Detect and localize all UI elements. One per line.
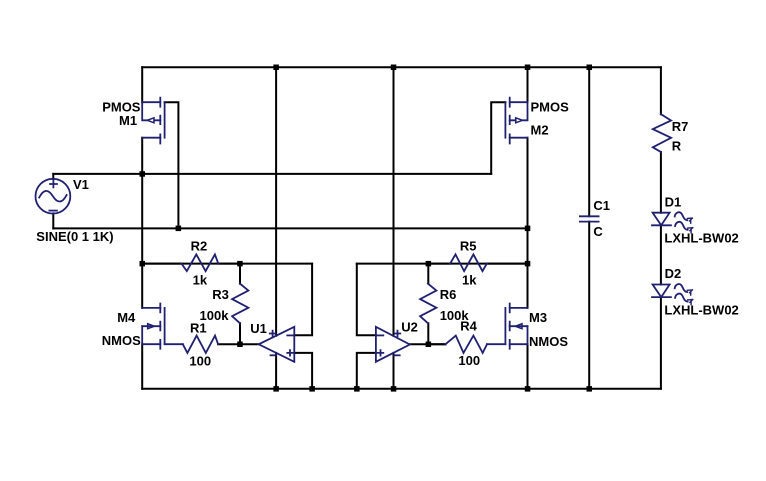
wire R1 to U1 output <box>218 343 259 345</box>
wire M2 gate riser <box>491 102 505 174</box>
wire M1 gate riser <box>165 102 179 228</box>
capacitor C1 <box>580 216 599 221</box>
svg-text:D2: D2 <box>665 266 682 281</box>
wire left R2 row <box>142 263 312 265</box>
resistor R2 <box>182 254 219 271</box>
wire R2 right lead <box>218 263 240 265</box>
wire U2 inverting input to R5 row <box>357 264 376 336</box>
wire R7 LED column <box>660 67 662 389</box>
svg-text:LXHL-BW02: LXHL-BW02 <box>664 230 738 245</box>
junction R4 left R6 bottom U2 output <box>426 342 432 348</box>
wire top rail <box>142 66 661 68</box>
wire U2 V+ riser <box>393 67 395 336</box>
diode D2 LED <box>652 284 693 305</box>
wire R4 left lead <box>428 343 445 345</box>
junction bottom rail at U2 V- <box>391 386 397 392</box>
svg-text:R4: R4 <box>460 319 477 334</box>
svg-text:100: 100 <box>458 353 480 368</box>
svg-text:R6: R6 <box>440 287 457 302</box>
wire C1 top <box>588 67 590 216</box>
svg-text:R: R <box>672 139 682 154</box>
svg-text:C1: C1 <box>593 198 610 213</box>
junction top rail at M2 source <box>525 65 531 71</box>
wire C1 bottom <box>588 222 590 389</box>
diode D1 LED <box>652 212 693 233</box>
junction top rail at C1 <box>587 65 593 71</box>
junction top rail at U1 V+ <box>273 65 279 71</box>
transistor M2 PMOS <box>505 98 527 144</box>
resistor R5 <box>450 254 487 271</box>
junction R2 left at left column <box>140 261 146 267</box>
wire R6 leads <box>427 264 429 345</box>
transistor M1 PMOS (mirrored) <box>142 98 164 144</box>
junction bottom rail at M3 source <box>525 386 531 392</box>
svg-text:R1: R1 <box>190 320 207 335</box>
wire U2 V- riser <box>393 353 395 389</box>
wire bottom rail <box>142 388 661 390</box>
op-amp U2 (output right) <box>376 327 410 362</box>
wire U1 V+ riser <box>275 67 277 336</box>
svg-text:U2: U2 <box>401 320 418 335</box>
wire M2 source to top rail <box>527 67 529 102</box>
resistor R1 <box>183 336 218 353</box>
svg-text:V1: V1 <box>73 177 89 192</box>
wire R5 right lead <box>487 263 528 265</box>
wire U1 V- riser <box>275 353 277 389</box>
wire U2 noninverting input to bottom rail <box>357 353 376 389</box>
resistor R4 <box>446 336 488 353</box>
svg-text:R5: R5 <box>460 238 477 253</box>
wire V1 top to M2 gate row <box>53 173 491 175</box>
svg-text:100: 100 <box>189 354 211 369</box>
junction R5 right at M2 drain column <box>525 261 531 267</box>
transistor M3 NMOS <box>487 304 528 349</box>
junction M2 drain at V1 bottom row <box>525 226 531 232</box>
svg-text:PMOS: PMOS <box>531 100 570 115</box>
svg-text:M3: M3 <box>529 310 547 325</box>
svg-text:NMOS: NMOS <box>102 333 141 348</box>
svg-text:SINE(0 1 1K): SINE(0 1 1K) <box>36 229 113 244</box>
wire left column M1 source <box>141 67 143 102</box>
svg-text:M2: M2 <box>531 123 549 138</box>
wire R5 left lead <box>428 263 450 265</box>
wire U1 inverting input to R2 row <box>294 264 312 336</box>
op-amp U1 (mirrored, output left) <box>259 327 295 362</box>
transistor M4 NMOS (mirrored) <box>142 304 183 349</box>
junction bottom rail at U1 V- <box>273 386 279 392</box>
svg-text:LXHL-BW02: LXHL-BW02 <box>664 302 738 317</box>
wire M2 drain to M3 drain <box>527 138 529 308</box>
junction bottom rail at U1 + input <box>309 386 315 392</box>
wire M3 source to bottom rail <box>527 344 529 389</box>
junction R1 right R3 bottom U1 output <box>237 342 243 348</box>
wire U1 noninverting input to bottom rail <box>294 353 312 389</box>
wire R3 leads <box>239 264 241 345</box>
svg-text:M4: M4 <box>117 310 136 325</box>
junction top rail at U2 V+ <box>391 65 397 71</box>
junction R2 right R3 top <box>237 261 243 267</box>
junction R5 left R6 top <box>426 261 432 267</box>
junction bottom rail at C1 <box>587 386 593 392</box>
junction bottom rail at U2 + input <box>354 386 360 392</box>
wire R2 left lead <box>142 263 181 265</box>
svg-text:M1: M1 <box>119 113 137 128</box>
wire U2 output to R4 <box>410 343 446 345</box>
wire right R5 row <box>357 263 528 265</box>
junction V1 top at left column <box>140 171 146 177</box>
wire V1 top stub <box>52 174 54 179</box>
junction M1 gate at V1 bottom row <box>176 226 182 232</box>
svg-text:1k: 1k <box>193 273 208 288</box>
svg-text:U1: U1 <box>250 321 267 336</box>
wire left column M1 drain to M4 drain <box>141 138 143 308</box>
resistor R6 <box>420 284 436 324</box>
svg-text:R3: R3 <box>212 287 229 302</box>
resistor R3 <box>232 284 248 324</box>
svg-text:NMOS: NMOS <box>529 334 568 349</box>
resistor R7 <box>653 114 671 152</box>
wire V1 bottom stub <box>52 213 54 228</box>
wire V1 bottom row <box>53 227 527 229</box>
svg-text:D1: D1 <box>665 194 682 209</box>
svg-text:R7: R7 <box>672 119 689 134</box>
svg-text:1k: 1k <box>462 272 477 287</box>
wire M4 source to bottom rail <box>141 344 143 389</box>
svg-text:R2: R2 <box>191 239 208 254</box>
svg-text:C: C <box>593 224 603 239</box>
voltage source V1 <box>36 179 71 214</box>
